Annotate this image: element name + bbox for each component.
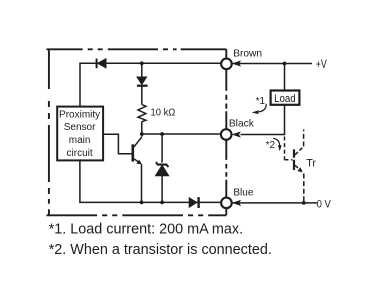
diode D2 (surge diode, vertical) <box>137 77 148 86</box>
junction dot zener top <box>160 132 164 136</box>
junction dot emitter/bottom wire <box>140 201 144 205</box>
wire: 0 V line (Blue lead) <box>232 202 317 204</box>
svg-text:+V: +V <box>316 57 327 71</box>
svg-text:Sensor: Sensor <box>64 122 96 133</box>
diode D1 (series protection, top wire) <box>97 59 106 69</box>
svg-text:*1. Load current: 200 mA max.: *1. Load current: 200 mA max. <box>49 222 243 238</box>
diode D3 (reverse protection, bottom wire) <box>189 197 198 208</box>
svg-text:circuit: circuit <box>67 148 93 159</box>
zener diode ZD (between Black bus and Blue bus) <box>156 162 169 176</box>
callout arrow *1 (curved, points to Load wire) <box>252 104 267 114</box>
svg-text:*1: *1 <box>256 96 266 107</box>
svg-text:Black: Black <box>229 118 255 129</box>
svg-text:Load: Load <box>274 93 296 105</box>
svg-text:Brown: Brown <box>233 49 262 60</box>
wire: emitter down lead <box>141 164 143 202</box>
emitter lead with arrow <box>134 159 140 163</box>
Load box <box>271 91 300 105</box>
svg-text:0 V: 0 V <box>317 199 332 211</box>
junction dot +V / Load <box>283 62 287 66</box>
Tr emitter arrowhead <box>297 167 302 172</box>
wire: base network from main circuit box <box>103 134 132 153</box>
wire: internal Brown bus (top) <box>80 63 221 106</box>
Tr collector vertical (open top) <box>303 130 305 147</box>
junction dot zener bottom <box>160 201 164 205</box>
svg-text:*2. When a transistor is conne: *2. When a transistor is connected. <box>49 242 272 258</box>
junction dot resistor/collector/Black wire <box>140 132 144 136</box>
external transistor Tr (dashed) <box>285 130 304 203</box>
node: Black terminal <box>221 129 232 140</box>
callout arrow *2 (curved, points to dashed wire) <box>273 138 281 151</box>
svg-text:*2: *2 <box>266 140 276 151</box>
resistor 10 kOhm (zigzag) <box>138 105 146 122</box>
sensor outline bottom edge (chain line) <box>47 214 227 216</box>
transistor Q1 (output NPN) <box>133 137 142 164</box>
svg-text:Blue: Blue <box>233 187 253 198</box>
wire: Load to Black node <box>241 105 285 135</box>
base bar <box>132 144 135 161</box>
Tr base feed: dashed drop from Black/Load corner <box>284 137 286 160</box>
wire: internal Blue bus (bottom) <box>80 160 222 202</box>
wire: +V supply line (Brown lead) <box>232 63 312 65</box>
wire: +V drop to Load <box>284 64 286 91</box>
junction dot Tr emitter / 0V <box>302 201 306 205</box>
Tr emitter slant <box>295 165 301 170</box>
wire: main internal vertical rail <box>141 63 143 77</box>
Tr base feed horizontal <box>285 159 293 161</box>
wire: zener branch <box>161 134 163 163</box>
arrowhead into Blue terminal <box>232 200 241 206</box>
svg-text:Proximity: Proximity <box>59 109 100 120</box>
collector lead <box>134 137 142 147</box>
node: Brown terminal <box>221 59 232 70</box>
sensor outline right edge (chain line through terminals) <box>225 49 227 215</box>
sensor outline left edge (chain line) <box>48 49 50 215</box>
arrowhead into Brown terminal <box>232 60 241 66</box>
svg-text:10 kΩ: 10 kΩ <box>151 108 176 119</box>
Tr emitter vertical to 0V <box>303 174 305 203</box>
arrowhead into Black terminal <box>232 131 241 137</box>
sensor outline top edge (chain line) <box>47 48 227 50</box>
svg-text:Tr: Tr <box>306 157 316 169</box>
junction dot on top wire at D2 <box>140 61 144 65</box>
wire: internal Black branch to output node <box>142 133 222 135</box>
svg-text:main: main <box>69 135 91 146</box>
Tr collector slant <box>295 147 303 155</box>
Tr base bar (dashed) <box>293 149 295 170</box>
node: Blue terminal <box>221 198 232 209</box>
proximity sensor main circuit box <box>57 107 103 161</box>
